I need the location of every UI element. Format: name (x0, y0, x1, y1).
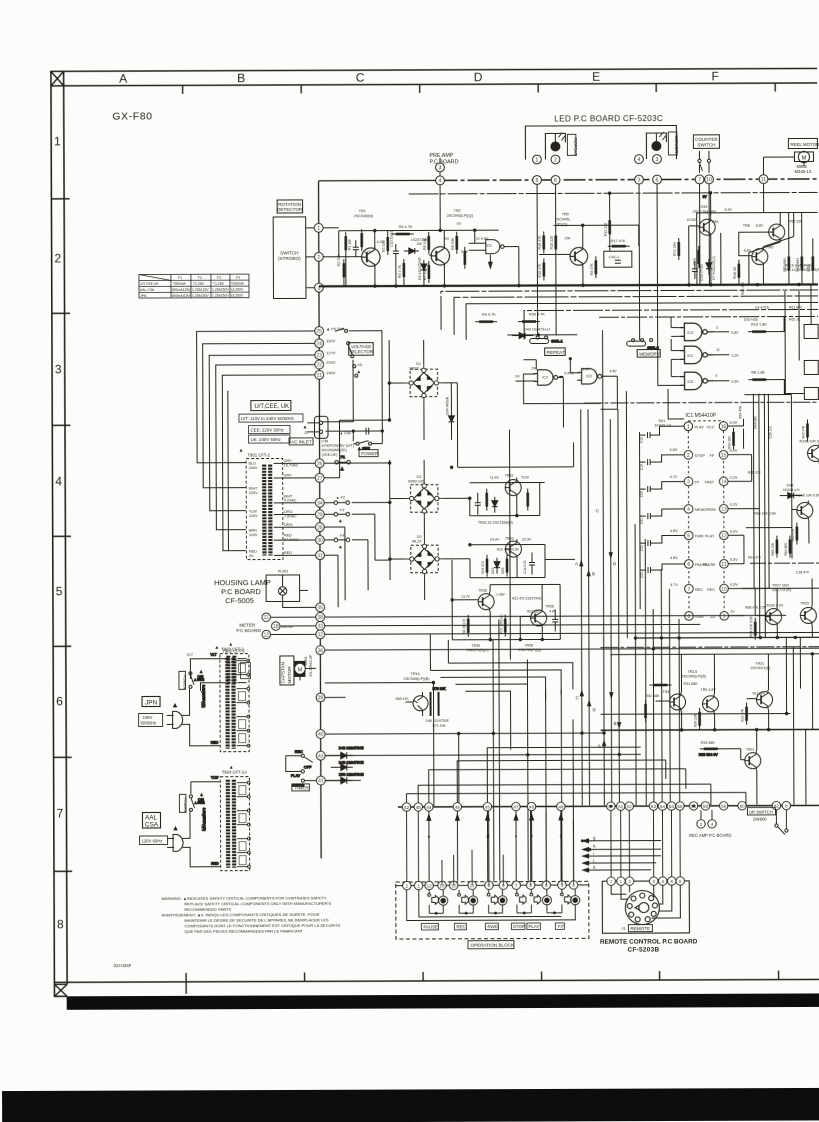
svg-text:FWD: FWD (695, 534, 704, 538)
svg-text:C26 100: C26 100 (768, 426, 772, 439)
svg-text:R43 47K: R43 47K (801, 425, 805, 439)
column ticks top (183, 83, 776, 94)
svg-text:4: 4 (715, 374, 717, 378)
svg-text:4.7V: 4.7V (670, 475, 678, 479)
row ticks left (51, 199, 73, 872)
operation block dashed box (396, 881, 589, 939)
row numbers (54, 134, 64, 931)
fuse table (139, 274, 249, 298)
LED PC board outline (525, 125, 676, 159)
svg-text:T1.25A: T1.25A (213, 282, 225, 286)
svg-text:R60 330: R60 330 (741, 282, 745, 295)
svg-text:▲: ▲ (173, 826, 178, 832)
svg-text:C19 1: C19 1 (640, 461, 644, 470)
svg-text:FF: FF (710, 454, 715, 458)
AAL SW2 switch (189, 793, 206, 831)
svg-text:CSA: CSA (145, 821, 159, 828)
right top rail y=214 (697, 212, 818, 284)
switch strobo box (273, 217, 306, 299)
resistor R15 (543, 258, 545, 280)
svg-text:(CEE,UK): (CEE,UK) (322, 453, 338, 457)
svg-text:R48 1K: R48 1K (733, 266, 737, 279)
second bus y=194 (409, 192, 818, 194)
svg-text:U/T: 110V to 240V 50/60Hz: U/T: 110V to 240V 50/60Hz (241, 416, 294, 421)
svg-text:10: 10 (721, 587, 727, 593)
svg-text:6: 6 (670, 879, 673, 885)
remote wires (611, 885, 680, 918)
svg-text:31: 31 (317, 553, 323, 559)
svg-text:E: E (592, 70, 600, 84)
svg-text:R50 330: R50 330 (789, 219, 803, 223)
svg-text:A: A (575, 561, 578, 566)
svg-text:C10 10/16: C10 10/16 (390, 230, 394, 247)
svg-text:PAUSE: PAUSE (703, 563, 716, 567)
svg-text:D44: D44 (787, 484, 794, 488)
right gate output (606, 375, 617, 377)
gate input loop (523, 374, 600, 404)
remote round connector (625, 891, 659, 925)
LED board pins 1 2 4 3 (533, 155, 662, 164)
svg-text:F3: F3 (340, 508, 344, 512)
svg-text:1.0V: 1.0V (731, 354, 739, 358)
svg-text:LED P.C BOARD CF-5203C: LED P.C BOARD CF-5203C (554, 114, 663, 123)
svg-text:TR14: TR14 (410, 672, 419, 676)
svg-text:IC2: IC2 (586, 374, 592, 378)
svg-text:MEMO: MEMO (695, 508, 707, 512)
svg-text:SVB2-100: SVB2-100 (408, 479, 424, 483)
svg-text:C22 1: C22 1 (640, 542, 644, 551)
resistor R58 (746, 703, 748, 725)
svg-text:220V: 220V (326, 360, 336, 365)
counter switch box (693, 135, 719, 149)
svg-text:T904 CFT-2A: T904 CFT-2A (222, 770, 247, 775)
svg-text:VCC: VCC (706, 425, 714, 429)
svg-text:2SC945(LP)(B): 2SC945(LP)(B) (681, 674, 706, 678)
POWER box (359, 450, 378, 457)
JPN 100V box (139, 713, 163, 726)
IC1 right side wires (728, 419, 770, 616)
svg-text:COUNTER: COUNTER (695, 137, 718, 142)
wire reel motor down (763, 157, 804, 175)
svg-text:TR8,9 2SA684(E): TR8,9 2SA684(E) (784, 263, 812, 267)
svg-text:55: 55 (677, 804, 683, 809)
svg-text:STOP: STOP (695, 454, 706, 458)
svg-text:D: D (593, 707, 596, 712)
svg-text:(STROBO): (STROBO) (278, 256, 301, 261)
vertical x=627 (625, 391, 628, 638)
REPEAT boxed label (545, 348, 566, 356)
IC1 left pins 1-8 (684, 422, 693, 620)
MEMORY vertical label (668, 132, 679, 156)
svg-text:C: C (576, 695, 579, 700)
svg-text:1.25A125V: 1.25A125V (192, 288, 210, 292)
svg-text:B: B (614, 721, 617, 726)
resistor R26 (506, 555, 508, 577)
svg-text:CAPSTAN: CAPSTAN (280, 662, 285, 683)
switch rwd lever (488, 890, 490, 893)
svg-text:D04 WO2B: D04 WO2B (445, 396, 449, 415)
svg-text:R4 4.7K: R4 4.7K (399, 225, 413, 229)
cross wires (739, 213, 794, 285)
svg-text:1: 1 (536, 158, 539, 164)
svg-text:5: 5 (687, 533, 690, 539)
meter wires (270, 617, 315, 634)
IC1 feeds (635, 524, 636, 805)
svg-text:52: 52 (627, 804, 633, 809)
svg-text:R68 47K 0.5V: R68 47K 0.5V (749, 615, 753, 636)
svg-text:RECOMMENDED PARTS: RECOMMENDED PARTS (184, 907, 231, 912)
extra right-side part labels (738, 282, 809, 610)
resistor R17 (595, 256, 597, 278)
svg-text:TIMER: TIMER (294, 785, 309, 790)
svg-text:0V: 0V (457, 222, 462, 226)
voltage line boxes (239, 414, 303, 422)
svg-text:1.25A250V: 1.25A250V (192, 294, 210, 298)
svg-text:GX-F80: GX-F80 (112, 110, 152, 122)
counter switch drop wires (700, 184, 710, 285)
svg-text:220V: 220V (249, 491, 258, 495)
svg-text:6: 6 (554, 178, 557, 184)
svg-text:▲: ▲ (199, 670, 202, 674)
svg-text:54: 54 (669, 804, 675, 809)
bus pins 35 38 33 32 (316, 603, 325, 655)
svg-text:e: e (428, 834, 431, 839)
svg-text:D6 1S2473VE: D6 1S2473VE (418, 257, 422, 280)
AAL CSA box (142, 812, 160, 828)
svg-text:1: 1 (317, 226, 320, 232)
op block lower wires (407, 889, 576, 920)
svg-text:1: 1 (54, 134, 61, 148)
svg-text:4.8V: 4.8V (670, 529, 678, 533)
svg-text:1: 1 (620, 879, 623, 885)
svg-text:TR35: TR35 (471, 644, 480, 648)
svg-text:AC INLET: AC INLET (291, 439, 312, 444)
transistor TR1 (362, 246, 380, 269)
svg-text:M: M (298, 667, 303, 673)
svg-text:D49 1S2473VE: D49 1S2473VE (339, 761, 364, 765)
resistor R56 (699, 708, 701, 730)
LED D902 memory (652, 132, 667, 151)
svg-text:FF: FF (695, 480, 700, 484)
svg-text:AAL,CSA: AAL,CSA (140, 288, 155, 292)
svg-text:2: 2 (317, 255, 320, 261)
svg-text:110V: 110V (326, 338, 335, 343)
switch ff lever (561, 889, 563, 892)
top rail (457, 382, 573, 482)
capstan motor box (280, 656, 294, 685)
svg-text:33: 33 (317, 624, 323, 630)
svg-text:P.C BOARD: P.C BOARD (221, 587, 261, 596)
svg-text:D8: D8 (417, 242, 422, 246)
svg-text:13: 13 (721, 507, 727, 513)
left feed from transformer bus (324, 462, 390, 464)
svg-text:C48: C48 (322, 439, 329, 443)
svg-text:UL250V: UL250V (231, 288, 244, 292)
svg-text:PAUSE: PAUSE (423, 924, 438, 929)
svg-text:2SC1384P(B): 2SC1384P(B) (693, 210, 717, 214)
svg-text:REPLACE SAFETY CRITICAL COM: REPLACE SAFETY CRITICAL COMPONENTS ONLY … (184, 901, 331, 907)
D48 diode cluster (325, 746, 364, 784)
svg-text:OPERATION BLOCK: OPERATION BLOCK (470, 943, 515, 948)
twin verticals with arrows (581, 429, 582, 805)
svg-text:110V: 110V (249, 533, 258, 537)
svg-text:R70 20K: R70 20K (432, 687, 446, 691)
svg-text:R1 1M: R1 1M (348, 240, 352, 251)
counter switch contacts (698, 151, 711, 173)
resistor R30 (732, 428, 734, 450)
svg-text:CF-5203B: CF-5203B (627, 947, 659, 954)
svg-text:C: C (356, 71, 365, 85)
svg-text:ON: ON (565, 236, 571, 240)
voltage selector box (349, 343, 374, 356)
svg-text:02I-034F: 02I-034F (114, 963, 132, 968)
resistor R9 (343, 259, 345, 281)
svg-text:R62 1K: R62 1K (789, 317, 801, 321)
resistor R23 (527, 489, 529, 511)
svg-text:TR7,10,11 2SC1384(P): TR7,10,11 2SC1384(P) (784, 268, 819, 272)
svg-text:TR36: TR36 (524, 644, 533, 648)
svg-text:A: A (598, 743, 601, 748)
svg-text:120V 60Hz: 120V 60Hz (142, 838, 163, 843)
svg-text:P.C BOARD: P.C BOARD (429, 159, 458, 165)
T901 secondary taps (274, 463, 316, 555)
svg-text:C41-1: C41-1 (609, 255, 619, 259)
svg-text:▲ C48: ▲ C48 (340, 431, 351, 435)
svg-text:TR33: TR33 (505, 537, 514, 541)
svg-text:IC5: IC5 (687, 380, 693, 384)
drops from bus to operation block (407, 810, 681, 885)
svg-text:38: 38 (317, 615, 323, 621)
svg-text:R66 12K: R66 12K (748, 471, 762, 475)
svg-text:15: 15 (721, 453, 727, 459)
svg-text:58: 58 (703, 804, 709, 809)
svg-text:T901 CFT-2: T901 CFT-2 (248, 453, 271, 458)
svg-text:SWITCH: SWITCH (697, 142, 715, 147)
T901 primary labels (249, 462, 259, 559)
svg-text:22: 22 (316, 363, 322, 369)
svg-text:1: 1 (417, 884, 420, 890)
svg-text:C40 47/16: C40 47/16 (700, 264, 704, 281)
resistor R48 (738, 260, 740, 282)
capacitor C45 (552, 609, 558, 631)
wires TR1 collector/emitter (344, 230, 424, 286)
svg-text:REPEAT: REPEAT (547, 350, 565, 355)
svg-text:42: 42 (404, 805, 410, 810)
column letters (119, 69, 719, 85)
svg-text:46: 46 (529, 805, 535, 810)
svg-text:UK: 240V 50Hz: UK: 240V 50Hz (251, 437, 281, 442)
remote pins (607, 877, 685, 886)
svg-text:A: A (119, 72, 127, 86)
svg-text:D23: D23 (491, 567, 495, 573)
rail into switches (507, 334, 577, 336)
svg-text:0.01(250WV)(H): 0.01(250WV)(H) (202, 808, 206, 831)
bus pins 39 40 43 41 (316, 693, 325, 785)
svg-text:2SC2021(K): 2SC2021(K) (750, 666, 770, 670)
svg-text:▲: ▲ (239, 448, 244, 454)
svg-text:R30 390: R30 390 (728, 436, 732, 449)
svg-text:GRY: GRY (284, 473, 293, 477)
svg-text:23: 23 (316, 353, 322, 359)
svg-text:R64 680: R64 680 (753, 416, 757, 429)
svg-text:J2: J2 (304, 431, 308, 435)
svg-text:R61 684: R61 684 (789, 305, 802, 309)
svg-text:TR31: TR31 (755, 662, 764, 666)
svg-text:REPEAT: REPEAT (573, 138, 578, 156)
resistor R32 (467, 615, 469, 637)
capacitor C1 (353, 240, 359, 256)
svg-text:B: B (592, 571, 595, 576)
svg-text:10.6V: 10.6V (687, 218, 697, 222)
svg-text:5: 5 (56, 584, 63, 598)
svg-text:TR8: TR8 (743, 224, 750, 228)
svg-text:PLAY: PLAY (694, 425, 704, 429)
svg-text:R22 470 20.8V: R22 470 20.8V (497, 548, 520, 552)
connector pins 1 2 3 (314, 223, 323, 292)
diode D04 (448, 412, 454, 428)
svg-text:V9: V9 (357, 362, 363, 367)
AC inlet plug (307, 416, 328, 438)
svg-text:▲: ▲ (338, 544, 343, 550)
svg-text:R67 47K: R67 47K (748, 556, 762, 560)
svg-text:D49 1S2473-LH: D49 1S2473-LH (524, 327, 550, 331)
svg-text:1K34A-LH: 1K34A-LH (654, 423, 671, 427)
svg-text:1K34A-LH: 1K34A-LH (783, 488, 800, 492)
LED D901 repeat (551, 132, 566, 151)
svg-text:YLW: YLW (211, 776, 219, 780)
svg-text:4.8V: 4.8V (670, 556, 678, 560)
elbow staircase from TR35/36 rail to op block drops (430, 633, 573, 750)
svg-text:REMOTE: REMOTE (630, 926, 650, 931)
svg-text:2SA733(P)(Q): 2SA733(P)(Q) (518, 648, 541, 652)
svg-text:R5 4.7K: R5 4.7K (398, 264, 402, 278)
svg-text:SW1-1: SW1-1 (551, 339, 563, 343)
svg-text:R26: R26 (501, 567, 505, 573)
svg-text:R9 4.7K: R9 4.7K (482, 313, 496, 317)
AC INLET box (289, 438, 313, 445)
svg-text:3: 3 (716, 326, 718, 330)
svg-text:7: 7 (610, 879, 613, 885)
svg-text:▲: ▲ (356, 369, 361, 375)
main vertical connector bus x=320 (319, 181, 322, 858)
svg-text:127V: 127V (326, 350, 336, 355)
svg-text:12: 12 (721, 533, 727, 539)
svg-text:F1: F1 (341, 455, 345, 459)
svg-text:▲: ▲ (302, 424, 307, 430)
F5 loop wire down to power switch (321, 331, 382, 442)
svg-text:T1.25A: T1.25A (193, 282, 205, 286)
svg-text:F4: F4 (236, 276, 240, 280)
svg-text:21: 21 (316, 373, 322, 379)
svg-text:R19 1.8K: R19 1.8K (751, 323, 767, 327)
svg-text:TR9 4.8V: TR9 4.8V (700, 688, 716, 692)
zener D23 (494, 558, 500, 574)
AAL power switch vertical box (179, 794, 186, 812)
reel motor M902 (794, 151, 813, 162)
svg-text:2SC945L: 2SC945L (555, 217, 571, 221)
svg-text:12: 12 (263, 633, 269, 639)
svg-text:3: 3 (656, 157, 659, 163)
svg-text:30: 30 (317, 538, 323, 544)
svg-text:PLAY: PLAY (705, 534, 715, 538)
svg-text:45: 45 (485, 805, 491, 810)
svg-text:16.7VAC: 16.7VAC (284, 463, 299, 467)
column ticks bottom (186, 971, 779, 994)
zener D45 (706, 259, 712, 275)
resistor R25 (486, 555, 488, 577)
svg-text:5.0V: 5.0V (729, 421, 737, 425)
svg-text:D3: D3 (417, 535, 422, 539)
svg-text:3: 3 (687, 480, 690, 486)
svg-text:R8 10K: R8 10K (451, 237, 455, 250)
svg-text:IC0: IC0 (486, 244, 492, 248)
TR2 wires (419, 185, 469, 286)
svg-text:C20 1: C20 1 (640, 488, 644, 497)
svg-text:4: 4 (55, 474, 62, 488)
svg-text:TR35: TR35 (478, 589, 487, 593)
svg-text:F2: F2 (198, 276, 202, 280)
svg-text:C23 1: C23 1 (640, 569, 644, 578)
resistor R72 (678, 238, 680, 260)
svg-text:RED: RED (211, 862, 219, 866)
dash bus y=297.5 (454, 296, 818, 335)
switch disc 9 (498, 896, 507, 905)
svg-text:7.8VAC: 7.8VAC (284, 514, 297, 518)
svg-text:WHT: WHT (249, 487, 258, 491)
op block pins (403, 881, 578, 890)
svg-text:PLAY: PLAY (291, 774, 301, 778)
svg-text:METER: METER (239, 623, 256, 628)
svg-text:22.9V: 22.9V (522, 538, 532, 542)
svg-text:i: i (593, 851, 594, 856)
svg-text:RED: RED (211, 741, 219, 745)
svg-text:R31 100(1/2): R31 100(1/2) (499, 614, 503, 633)
svg-text:0V: 0V (249, 554, 254, 558)
svg-text:R6 10K: R6 10K (423, 237, 427, 250)
svg-text:6.8V: 6.8V (744, 249, 752, 253)
capacitor C10 (393, 244, 399, 260)
resistor R73 (698, 246, 700, 268)
svg-text:TR3: TR3 (662, 690, 669, 694)
diode D6 (421, 260, 427, 276)
resistor R6 (428, 232, 430, 254)
svg-text:TR5: TR5 (562, 212, 569, 216)
svg-text:7: 7 (688, 587, 691, 593)
svg-text:5.4TV: 5.4TV (564, 371, 574, 375)
svg-text:12 4.8V: 12 4.8V (476, 237, 489, 241)
switch disc 6 (542, 896, 551, 905)
resistor R5 (403, 259, 405, 281)
svg-text:D10 HZ6: D10 HZ6 (744, 318, 758, 322)
svg-text:0.2V: 0.2V (730, 503, 738, 507)
TR1 top rail (339, 230, 499, 257)
svg-text:D48 1S2473VE: D48 1S2473VE (339, 746, 364, 750)
svg-text:F1: F1 (178, 276, 182, 280)
svg-text:M: M (802, 155, 807, 161)
svg-text:8: 8 (688, 614, 691, 620)
left-center drops (432, 683, 434, 806)
svg-text:D7 HZ6(C2)(J): D7 HZ6(C2)(J) (712, 256, 716, 280)
svg-text:8: 8 (57, 917, 64, 931)
main bus y=180 dash-dot (436, 179, 818, 180)
resistor R8 (456, 232, 458, 254)
key labels (421, 923, 564, 930)
D04 diode drop (450, 383, 452, 440)
svg-text:4.2VAC: 4.2VAC (284, 498, 297, 502)
voltage labels (337, 230, 429, 280)
svg-text:8.4V: 8.4V (725, 208, 733, 212)
svg-text:53: 53 (651, 804, 657, 809)
